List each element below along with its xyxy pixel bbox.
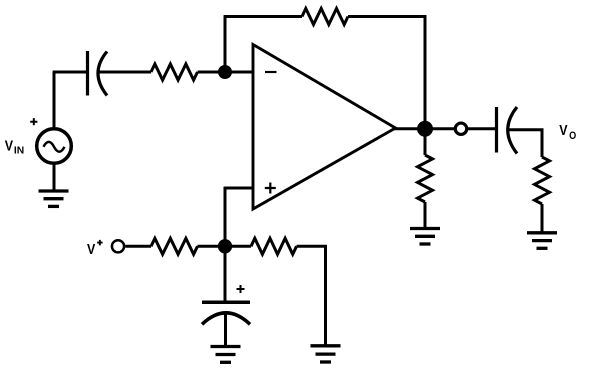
ground (R5)	[410, 229, 440, 245]
wire: output node down to resistor R5	[424, 129, 427, 155]
wire: capacitor C1 to resistor R1	[99, 71, 152, 74]
capacitor C2 top plate	[202, 301, 250, 305]
ground (C2)	[211, 347, 241, 363]
wire: source top vertical	[53, 72, 56, 129]
terminal: output open circle	[455, 123, 466, 134]
op-amp minus label	[265, 71, 277, 73]
wire: non-inverting input vertical down to bias node	[224, 187, 227, 246]
wire: bias node down to capacitor C2	[224, 246, 227, 301]
node: inverting input junction dot	[218, 65, 232, 79]
wire: feedback left vertical from inverting node up	[224, 17, 227, 73]
wire: op-amp output to coupling capacitor	[393, 127, 455, 130]
voltage source VIN sine wave	[44, 142, 65, 152]
svg-text:V: V	[559, 123, 568, 139]
svg-text:O: O	[569, 130, 576, 142]
wire: capacitor C3 right then down to resistor R6	[508, 130, 543, 157]
wire: capacitor C2 to ground	[224, 314, 227, 346]
wire: VIN circle bottom to ground	[53, 164, 56, 191]
resistor R3 (bias left)	[151, 238, 198, 254]
voltage source VIN plus sign	[30, 118, 37, 125]
ground (R6)	[527, 233, 557, 249]
wire: non-inverting input horizontal	[225, 187, 253, 190]
wire: R5 to ground	[424, 202, 427, 227]
resistor R2 (feedback)	[302, 9, 348, 25]
capacitor C2 plus sign	[237, 285, 245, 293]
wire: R1 to inverting input	[198, 71, 254, 74]
wire: R3 to bias node	[198, 245, 226, 248]
wire: feedback top horizontal left segment	[224, 15, 302, 18]
capacitor C3 left plate	[495, 107, 498, 153]
resistor R1 (input)	[151, 64, 198, 80]
wire: V+ terminal to resistor R3	[125, 245, 151, 248]
capacitor C3 right curved plate	[508, 107, 517, 154]
voltage source VIN circle	[37, 129, 72, 164]
resistor R6 (output load)	[535, 157, 550, 204]
wire: feedback right vertical down to output node	[424, 15, 427, 129]
resistor R5 (output to ground)	[418, 155, 433, 202]
svg-text:IN: IN	[14, 145, 24, 156]
op-amp U1 triangle	[253, 45, 396, 210]
wire: source to capacitor C1	[53, 71, 87, 74]
svg-text:V: V	[5, 139, 14, 155]
capacitor C1 right curved plate	[98, 52, 107, 96]
svg-text:V: V	[87, 242, 96, 258]
node: bias junction dot	[218, 239, 232, 253]
terminal: V+ open circle	[112, 240, 124, 252]
capacitor C2 bottom curved plate	[202, 313, 250, 324]
node: output junction dot	[417, 121, 433, 137]
wire: R6 to ground	[541, 204, 544, 232]
wire: feedback top horizontal right segment	[348, 15, 426, 18]
wire: output circle to capacitor C3	[468, 127, 496, 130]
wire: R4 right then down to ground	[297, 246, 326, 344]
wire: bias node to resistor R4	[225, 245, 251, 248]
ground (R4)	[311, 346, 341, 362]
capacitor C1 left plate	[86, 51, 89, 96]
resistor R4 (bias right)	[251, 238, 297, 254]
ground (VIN source)	[39, 191, 69, 206]
op-amp plus label	[265, 183, 276, 194]
